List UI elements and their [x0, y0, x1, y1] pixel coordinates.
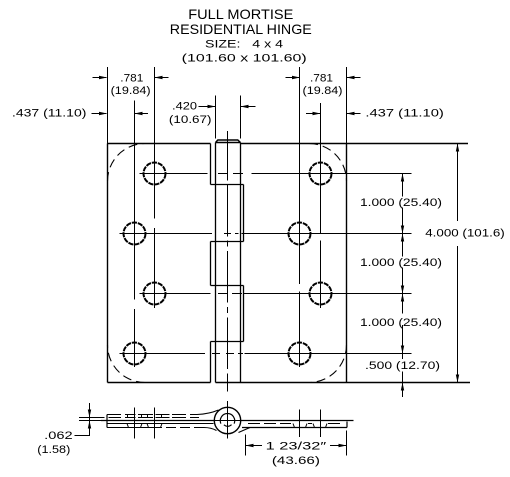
corner arc bottom-left dashed	[108, 345, 146, 383]
chain arrowhead bottom up	[401, 383, 404, 391]
extension line barrel right up	[240, 96, 242, 139]
plate right leaf top edge with extension to 4.000 dim	[241, 143, 469, 145]
extension line plate right edge up	[346, 67, 348, 144]
dim .062 arrowheads	[88, 410, 91, 418]
hole B2 row2 right	[289, 223, 311, 245]
svg-text:.781: .781	[120, 72, 143, 84]
side view left leaf top surface	[101, 420, 215, 422]
svg-text:.062: .062	[44, 430, 73, 442]
extension line barrel left up	[215, 96, 217, 139]
svg-text:.437 (11.10): .437 (11.10)	[365, 107, 444, 119]
plate bottom edge with extension	[108, 382, 471, 384]
svg-text:(43.66): (43.66)	[272, 455, 320, 467]
side view left leaf mid hidden line	[109, 417, 200, 419]
dim .437 left arrows	[92, 113, 107, 115]
svg-text:.781: .781	[310, 72, 333, 84]
dim 1 23/32 extension right	[346, 431, 348, 456]
right chain dim line 1.000 segments	[402, 174, 404, 398]
knuckle 2 right edge	[243, 185, 245, 242]
svg-text:.420: .420	[172, 101, 197, 113]
plate left edge	[107, 144, 109, 383]
knuckle 3 left edge	[210, 242, 212, 286]
hole A1 row1 left	[144, 163, 166, 185]
side view hole centerline x300	[299, 410, 301, 438]
side view left leaf end cap	[106, 415, 108, 428]
knuckle 4-5 step	[211, 341, 244, 343]
plate left leaf top edge	[108, 143, 211, 145]
hole A2 row2 left	[124, 223, 146, 245]
chain arrowhead row2 pair	[401, 226, 404, 234]
side view left extension line bottom	[79, 420, 105, 422]
hole B1 row1 right	[310, 163, 332, 185]
side view right countersink walls	[293, 424, 327, 428]
side view barrel crosshair horizontal	[213, 420, 244, 422]
row4 centerline	[120, 353, 412, 355]
svg-text:1.000 (25.40): 1.000 (25.40)	[360, 197, 442, 209]
dim 4.000 line	[457, 144, 459, 383]
side view hole centerline x134	[134, 408, 136, 439]
hole B3 row3 right	[310, 283, 332, 305]
side view right leaf end cap	[346, 422, 348, 428]
dim .062 leader	[75, 403, 90, 436]
knuckle 1-2 step	[211, 184, 244, 186]
side view left leaf top hidden line	[107, 414, 197, 416]
barrel left line	[215, 143, 217, 383]
dim .420 arrows	[199, 106, 216, 108]
side view hole centerline x320	[320, 410, 322, 438]
dim .437 right arrows	[306, 113, 320, 115]
row2 centerline	[120, 233, 412, 235]
row3 centerline	[140, 293, 412, 295]
column centerline x154	[154, 67, 156, 308]
corner arc bottom-right dashed	[309, 345, 347, 383]
knuckle 3-4 step	[211, 285, 244, 287]
svg-text:4.000 (101.6): 4.000 (101.6)	[425, 228, 505, 240]
svg-text:(19.84): (19.84)	[111, 85, 151, 97]
svg-text:(101.60 x 101.60): (101.60 x 101.60)	[182, 53, 307, 65]
plate right edge	[346, 144, 348, 383]
extension line plate left edge up	[107, 67, 109, 144]
side view barrel crosshair vertical	[227, 401, 229, 439]
knuckle 1 left edge	[210, 144, 212, 185]
column centerline x134	[134, 101, 136, 368]
svg-text:(19.84): (19.84)	[303, 85, 343, 97]
svg-text:SIZE: 4 x 4: SIZE: 4 x 4	[205, 39, 283, 51]
side view left countersink walls	[128, 415, 162, 418]
corner arc top-left dashed	[108, 144, 146, 182]
side view right leaf top surface	[241, 420, 354, 422]
pin centerline vertical	[227, 131, 229, 392]
pin cap top	[216, 140, 241, 143]
dim .781 left arrows	[93, 77, 107, 79]
knuckle 4 right edge	[243, 286, 245, 342]
chain arrowhead row4 down	[401, 346, 404, 354]
dim .781 right arrows	[286, 77, 300, 79]
svg-text:(1.58): (1.58)	[37, 444, 70, 456]
corner arc top-right dashed	[309, 144, 347, 182]
chain arrowhead row1 up	[401, 174, 404, 182]
svg-text:RESIDENTIAL HINGE: RESIDENTIAL HINGE	[170, 21, 312, 37]
row1 centerline	[140, 173, 412, 175]
svg-text:1.000 (25.40): 1.000 (25.40)	[360, 257, 442, 269]
hole A4 row4 left	[124, 343, 146, 365]
dim 1 23/32 extension left	[245, 435, 247, 456]
svg-text:FULL MORTISE: FULL MORTISE	[188, 6, 293, 22]
side view left leaf countersink bottom line	[107, 427, 204, 429]
side view left leaf bottom surface	[107, 423, 214, 425]
svg-text:1.000 (25.40): 1.000 (25.40)	[360, 317, 442, 329]
side view right leaf hidden mid line	[248, 423, 340, 425]
knuckle 2-3 step	[211, 241, 244, 243]
svg-text:(10.67): (10.67)	[169, 114, 212, 126]
side view pin circle upper arc	[220, 414, 234, 424]
side view hole centerline x154	[154, 408, 156, 439]
hole B4 row4 right	[289, 343, 311, 365]
svg-text:.437 (11.10): .437 (11.10)	[12, 107, 87, 119]
side view barrel circle	[214, 407, 240, 433]
barrel right line	[240, 143, 242, 383]
svg-text:.500 (12.70): .500 (12.70)	[365, 360, 440, 372]
column centerline x320	[320, 103, 322, 308]
side view neck upper left	[197, 410, 219, 415]
column centerline x300	[299, 67, 301, 367]
side view left extension line top	[79, 417, 105, 419]
knuckle 5 left edge	[210, 342, 212, 383]
side view neck lower right	[239, 428, 251, 433]
chain arrowhead row3 pair	[401, 286, 404, 294]
side view pin circle lower arc	[224, 425, 232, 427]
dim 1 23/32 line and arrows	[246, 445, 347, 447]
dim 4.000 arrowheads	[456, 144, 459, 152]
side view right leaf bottom surface	[242, 427, 347, 429]
hole A3 row3 left	[144, 283, 166, 305]
svg-text:1 23/32″: 1 23/32″	[266, 440, 327, 452]
side view neck lower left	[204, 428, 217, 431]
